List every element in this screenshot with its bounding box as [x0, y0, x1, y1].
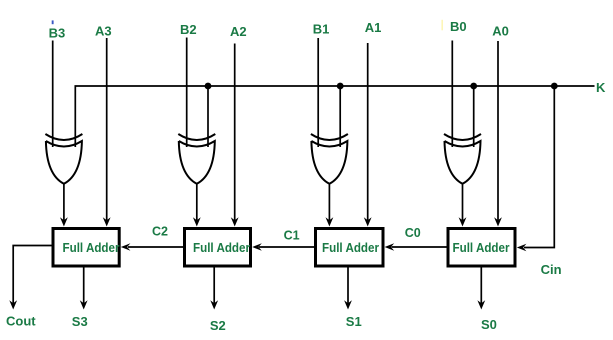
xor gate X1 [45, 134, 82, 184]
wire carry C2 [128, 246, 183, 248]
svg-text:Cin: Cin [541, 262, 562, 277]
wire XOR1 output [63, 184, 65, 222]
svg-text:B3: B3 [49, 25, 66, 40]
xor gate X3 [311, 134, 348, 184]
svg-text:B2: B2 [180, 22, 197, 37]
junction on K for XOR3 [337, 83, 344, 90]
wire Cin from K [524, 86, 554, 248]
arrow A0 into FA4 [494, 217, 502, 226]
svg-text:B0: B0 [450, 19, 467, 34]
arrow XOR4 into FA4 [459, 217, 467, 226]
wire S2 [213, 268, 215, 305]
svg-text:Full Adder: Full Adder [322, 240, 379, 255]
arrow S3 [80, 300, 88, 309]
arrow XOR2 into FA2 [193, 217, 201, 226]
arrow S1 [344, 300, 352, 309]
cursor artifact yellow [441, 20, 443, 31]
wire A1 input [367, 43, 369, 221]
xor gate X2 [178, 134, 215, 184]
wire K branch to XOR4 [473, 86, 475, 147]
full adder U4 [448, 229, 515, 267]
arrow C0 into FA3 [385, 243, 395, 250]
svg-text:Full Adder: Full Adder [453, 240, 510, 255]
wire A0 input [497, 41, 499, 221]
wire S3 [83, 268, 85, 305]
wire carry C1 [259, 246, 314, 248]
svg-text:S0: S0 [481, 317, 497, 332]
wire XOR3 output [328, 184, 330, 222]
svg-text:C2: C2 [152, 225, 168, 239]
xor gate X4 [444, 134, 481, 184]
junction on K for Cin [551, 83, 558, 90]
wire A2 input [234, 44, 236, 222]
junction on K for XOR2 [205, 83, 212, 90]
cursor artifact [52, 20, 54, 24]
svg-text:K: K [596, 80, 606, 95]
arrow Cout [9, 300, 17, 309]
wire XOR4 output [462, 184, 464, 222]
wire B1 input [317, 38, 319, 147]
arrow A3 into FA1 [103, 217, 111, 226]
wire B3 input [52, 41, 54, 148]
wire XOR2 output [196, 184, 198, 222]
svg-text:C1: C1 [284, 229, 300, 243]
arrow C2 into FA1 [121, 243, 131, 250]
wire S1 [347, 267, 349, 305]
wire carry C0 [392, 246, 447, 248]
arrow A2 into FA2 [231, 217, 239, 226]
wire K branch to XOR3 [339, 86, 341, 147]
arrow S2 [210, 300, 218, 309]
svg-text:A3: A3 [95, 24, 112, 39]
svg-text:A1: A1 [365, 20, 382, 35]
full adder U1 [53, 229, 119, 267]
arrow XOR1 into FA1 [60, 217, 68, 226]
svg-text:A0: A0 [492, 24, 509, 39]
svg-text:Full Adder: Full Adder [193, 240, 250, 255]
arrow S0 [477, 300, 485, 309]
svg-text:C0: C0 [405, 226, 421, 240]
arrow Cin into FA4 [517, 244, 527, 251]
wire K branch to XOR2 [207, 86, 209, 147]
wire B2 input [186, 38, 188, 148]
svg-text:A2: A2 [230, 24, 247, 39]
full adder U2 [185, 229, 251, 267]
wire A3 input [106, 38, 108, 221]
wire S0 [480, 268, 482, 305]
svg-text:Cout: Cout [6, 314, 36, 329]
wire Cout [13, 246, 51, 305]
arrow XOR3 into FA3 [326, 217, 334, 226]
svg-text:S1: S1 [346, 314, 362, 329]
wire B0 input [451, 41, 453, 148]
arrow C1 into FA2 [252, 243, 262, 250]
svg-text:S3: S3 [72, 314, 88, 329]
junction on K for XOR4 [470, 83, 477, 90]
svg-text:Full Adder: Full Adder [63, 240, 120, 255]
wire K horizontal [75, 86, 594, 147]
svg-text:S2: S2 [210, 318, 226, 333]
svg-text:B1: B1 [313, 22, 330, 37]
arrow A1 into FA3 [364, 217, 372, 226]
full adder U3 [316, 229, 384, 267]
